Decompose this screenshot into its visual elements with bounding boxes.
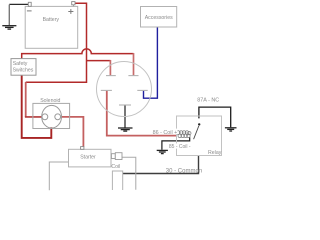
svg-text:Accessories: Accessories xyxy=(145,15,173,21)
svg-text:Relay: Relay xyxy=(208,150,222,156)
svg-text:Safety: Safety xyxy=(13,61,28,67)
svg-text:Starter: Starter xyxy=(80,155,96,161)
svg-text:Switches: Switches xyxy=(13,67,34,73)
svg-text:86 - Coil +: 86 - Coil + xyxy=(153,130,178,136)
svg-text:Coil: Coil xyxy=(111,164,120,170)
svg-text:Battery: Battery xyxy=(43,17,60,23)
svg-text:85 - Coil -: 85 - Coil - xyxy=(169,144,191,150)
svg-text:30 - Common: 30 - Common xyxy=(166,168,202,174)
svg-text:87A - NC: 87A - NC xyxy=(197,98,219,104)
